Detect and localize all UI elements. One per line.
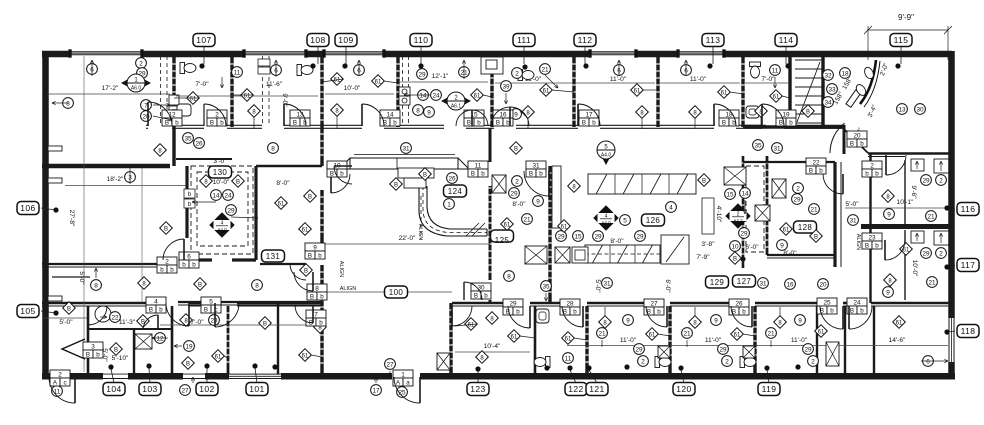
svg-text:B: B [471, 170, 475, 177]
keynote circle 9 [424, 107, 435, 118]
leader dot [342, 63, 347, 68]
svg-text:3: 3 [91, 343, 95, 350]
keynote circle 1 [444, 199, 455, 210]
keynote circle 9 [777, 240, 788, 251]
leader dot [252, 363, 257, 368]
svg-text:b: b [318, 252, 322, 259]
wall right rooms x905 [904, 160, 906, 224]
svg-text:4: 4 [154, 298, 158, 305]
keynote circle 29 [226, 205, 237, 216]
room tag 103 [139, 383, 161, 396]
cabinets right room 116 [911, 159, 950, 173]
keynote circle 29 [921, 248, 932, 259]
leader arrow [358, 60, 360, 76]
room tag 127 [733, 275, 756, 287]
svg-text:B: B [733, 256, 737, 262]
svg-text:31: 31 [759, 280, 767, 287]
svg-text:b: b [340, 170, 344, 177]
svg-text:120: 120 [676, 384, 691, 394]
keynote circle 21 [809, 204, 820, 215]
leader dot [764, 365, 769, 370]
keynote circle 8 [413, 105, 424, 116]
svg-text:29: 29 [509, 300, 517, 307]
svg-text:B: B [164, 226, 168, 232]
svg-text:2: 2 [641, 358, 645, 365]
door tag 18 [719, 110, 739, 126]
wall ledge stubs left [48, 146, 62, 151]
room 130 right wall [254, 166, 257, 260]
clinic wall x322 full height [320, 127, 323, 166]
door tag 5 [201, 297, 221, 313]
svg-text:6: 6 [926, 358, 930, 365]
svg-text:61: 61 [302, 227, 309, 233]
svg-text:29: 29 [719, 346, 727, 353]
svg-text:124: 124 [448, 187, 463, 196]
svg-text:21: 21 [927, 213, 935, 220]
door swing [762, 104, 784, 126]
door tag 16 [493, 110, 513, 126]
wall-type diamond 8 [599, 316, 612, 329]
wall-type diamond 61 [562, 332, 575, 345]
keynote circle 21 [522, 214, 533, 225]
svg-text:A4.0: A4.0 [601, 153, 612, 159]
kitchen south wall [767, 254, 835, 256]
keynote circle 29 [634, 344, 645, 355]
room tag 109 [335, 34, 357, 47]
door tag 28 [560, 299, 580, 315]
svg-text:117: 117 [961, 260, 976, 270]
svg-text:35: 35 [184, 135, 192, 142]
keynote circle 11 [232, 67, 243, 78]
leader dot [204, 363, 209, 368]
laundry wall x451 [449, 303, 452, 374]
door tag 29 [503, 299, 523, 315]
tag leader [41, 311, 56, 313]
keynote circle 29 [792, 194, 803, 205]
svg-text:A6.1: A6.1 [451, 104, 462, 110]
keynote circle 26 [194, 138, 205, 149]
svg-text:B: B [394, 182, 398, 188]
svg-text:b: b [175, 119, 179, 126]
svg-text:B: B [114, 347, 118, 353]
svg-text:B: B [814, 234, 818, 240]
svg-text:10'-1": 10'-1" [897, 199, 914, 206]
svg-text:2: 2 [515, 70, 519, 77]
door swing [362, 104, 384, 126]
svg-text:1: 1 [401, 371, 405, 378]
keynote circle 16 [785, 279, 796, 290]
svg-text:16: 16 [786, 281, 794, 288]
keynote circle 2 [722, 356, 733, 367]
tag leader [111, 369, 114, 383]
svg-text:B: B [529, 170, 533, 177]
door tag 3 [83, 342, 103, 358]
keynote circle 9 [795, 315, 806, 326]
leader arrow [153, 116, 172, 120]
door tag 23 [862, 233, 882, 249]
wall-type diamond B [63, 302, 76, 315]
room tag 117 [957, 259, 979, 272]
leader dot [586, 365, 591, 370]
door tag 6 [179, 252, 199, 268]
svg-text:5'-10": 5'-10" [112, 355, 129, 362]
leader dot [199, 63, 204, 68]
keynote circle 29 [593, 231, 604, 242]
keynote circle 29 [137, 68, 148, 79]
svg-text:5: 5 [209, 298, 213, 305]
svg-text:6: 6 [187, 253, 191, 260]
svg-text:9: 9 [798, 317, 802, 324]
door swing [295, 305, 313, 323]
svg-text:102: 102 [199, 384, 214, 394]
wall-type diamond 8 [882, 190, 895, 203]
door swing [578, 104, 600, 126]
svg-text:b: b [539, 170, 543, 177]
leader dot [624, 364, 629, 369]
leader arrow [275, 60, 277, 77]
svg-text:14: 14 [386, 111, 394, 118]
svg-text:104: 104 [106, 384, 121, 394]
svg-text:B: B [86, 351, 90, 358]
room tag 121 [586, 383, 608, 396]
dim lines bottom band [567, 345, 948, 347]
svg-text:14: 14 [419, 92, 427, 99]
svg-text:112: 112 [578, 35, 593, 45]
wall-type diamond 61 [471, 89, 484, 102]
svg-text:22'-0": 22'-0" [399, 235, 416, 242]
equipment (x-box) [772, 179, 786, 198]
svg-text:8'-0": 8'-0" [512, 201, 526, 208]
door tag 9 [305, 243, 325, 259]
door swing [148, 102, 172, 126]
wall y153 right [868, 152, 951, 154]
keynote circle 31 [401, 143, 412, 154]
top office partition walls [172, 57, 175, 127]
svg-text:29: 29 [740, 230, 748, 237]
toilet fixture [750, 62, 761, 78]
svg-text:2: 2 [139, 60, 143, 67]
svg-text:12'-1": 12'-1" [432, 73, 449, 80]
svg-text:b: b [592, 119, 596, 126]
keynote circle 9 [623, 315, 634, 326]
wall-type diamond 61 [900, 243, 913, 256]
svg-text:1: 1 [447, 201, 451, 208]
keynote circle 6 [614, 65, 625, 76]
leader arrow [685, 60, 687, 76]
wall-type diamond 61 [780, 223, 793, 236]
svg-text:B: B [850, 140, 854, 147]
toilet fixture [518, 70, 534, 81]
clinic core wall x550 [548, 166, 551, 303]
svg-text:10'-0": 10'-0" [213, 179, 230, 186]
wall-type diamond B [232, 175, 245, 188]
wall-type diamond B [110, 343, 123, 356]
svg-text:26: 26 [195, 140, 203, 147]
door swing [464, 282, 482, 300]
svg-text:A4.2: A4.2 [733, 218, 743, 223]
wall-type diamond 8 [689, 316, 702, 329]
keynote circle 39 [501, 81, 512, 92]
leader arrow [153, 104, 170, 106]
svg-text:B: B [514, 146, 518, 152]
leader arrow [463, 60, 465, 79]
leader arrow [52, 102, 68, 104]
svg-text:8'-0": 8'-0" [783, 250, 797, 257]
door swing [204, 104, 226, 126]
svg-text:b: b [393, 119, 397, 126]
door swing [331, 174, 350, 193]
door tag 10 [327, 161, 347, 177]
equipment (x-box) [135, 334, 152, 349]
exterior top wall [42, 51, 70, 58]
keynote circle 9 [511, 109, 522, 120]
keynote circle 20 [141, 111, 152, 122]
svg-text:B: B [582, 119, 586, 126]
door tag 2 [862, 161, 882, 177]
svg-text:8: 8 [271, 145, 275, 152]
room127 dashed outline [746, 166, 764, 252]
wall-type diamond 61 [372, 75, 385, 88]
wall-type diamond B [300, 264, 313, 277]
svg-text:B: B [308, 194, 312, 200]
dim line 18-2 [65, 185, 186, 187]
leader arrow [618, 60, 620, 76]
room tag 131 [262, 250, 285, 262]
room tag 114 [775, 34, 797, 47]
svg-text:b: b [860, 140, 864, 147]
keynote circle 3 [125, 172, 136, 183]
svg-text:b: b [875, 170, 879, 177]
stair side walls [788, 57, 791, 127]
leader dot [108, 364, 113, 369]
tag leader [149, 368, 150, 383]
door tag 13 [290, 110, 310, 126]
sink [95, 306, 111, 322]
svg-text:A4.0: A4.0 [217, 227, 227, 232]
cabinet room 111 [481, 57, 503, 74]
door swing [294, 272, 313, 291]
svg-text:15: 15 [574, 233, 582, 240]
leader dot [522, 64, 527, 69]
door swing [830, 123, 845, 153]
keynote circle 29 [921, 175, 932, 186]
svg-text:5'-0": 5'-0" [845, 201, 859, 208]
leader arrow [192, 201, 216, 203]
room130 dashed equipment outline [191, 166, 253, 254]
wall x172 [171, 306, 174, 374]
svg-text:29: 29 [227, 207, 235, 214]
left low partition [172, 127, 175, 166]
keynote circle 21 [682, 328, 693, 339]
room tag 100 [385, 286, 408, 298]
keynote circle 21 [766, 328, 777, 339]
wall-type diamond B [182, 357, 195, 370]
wall-type diamond 8 [774, 316, 787, 329]
svg-text:29: 29 [635, 346, 643, 353]
svg-text:61: 61 [818, 329, 825, 335]
door tag 26 [729, 299, 749, 315]
keynote circle 2 [136, 58, 147, 69]
wall-type diamond 8 [476, 351, 489, 364]
svg-text:B: B [186, 361, 190, 367]
keynote circle 2 [638, 356, 649, 367]
door tag 8 [307, 284, 327, 300]
door threshold [183, 373, 205, 375]
svg-text:118: 118 [961, 326, 976, 336]
low wall room 105 top [52, 276, 90, 278]
room tag 130 [209, 166, 232, 178]
wall right x870 [869, 153, 871, 303]
keynote circle 9 [533, 196, 544, 207]
svg-text:9'-6": 9'-6" [910, 185, 917, 199]
keynote circle 2 [793, 183, 804, 194]
svg-text:2: 2 [725, 358, 729, 365]
keynote circle 30 [915, 104, 926, 115]
wall-type diamond B [729, 252, 742, 265]
svg-text:11'-0": 11'-0" [705, 337, 722, 344]
keynote circle 8 [91, 280, 102, 291]
svg-text:122: 122 [568, 384, 583, 394]
tag leader [785, 46, 787, 64]
svg-text:9: 9 [427, 109, 431, 116]
svg-text:24: 24 [432, 92, 440, 99]
svg-text:61: 61 [302, 353, 309, 359]
svg-text:b: b [481, 170, 485, 177]
svg-text:11: 11 [234, 69, 241, 76]
storefront window [244, 51, 306, 53]
door swing [290, 264, 306, 280]
exterior right wall [948, 51, 955, 318]
door swing [143, 315, 158, 330]
keynote circle 19 [184, 341, 195, 352]
keynote circle 25 [397, 387, 408, 398]
leader arrow [404, 94, 430, 96]
casework counter [585, 245, 660, 263]
svg-text:22: 22 [111, 314, 119, 321]
storefront window [70, 51, 142, 53]
wall-type diamond B [137, 315, 150, 328]
svg-text:B: B [236, 179, 240, 185]
wall-type diamond B [810, 230, 823, 243]
svg-text:b: b [319, 319, 323, 326]
svg-text:b: b [96, 351, 100, 358]
leader dot [475, 366, 480, 371]
svg-text:2: 2 [165, 258, 169, 265]
svg-text:61: 61 [504, 222, 511, 228]
svg-text:B: B [149, 306, 153, 313]
wall-type diamond 61 [815, 325, 828, 338]
room tag 125 [491, 230, 514, 245]
door swing [49, 377, 75, 403]
svg-text:61: 61 [773, 94, 780, 100]
leader arrow [95, 268, 97, 278]
door tag 2 [157, 257, 177, 273]
storefront window [324, 51, 384, 53]
svg-text:B: B [67, 306, 71, 312]
leader dot [544, 365, 549, 370]
svg-text:B: B [496, 119, 500, 126]
tag leader [477, 371, 479, 383]
svg-text:b: b [320, 293, 324, 300]
svg-text:35: 35 [754, 142, 762, 149]
ALIGN box [702, 198, 714, 234]
keynote circle 21 [926, 211, 937, 222]
svg-text:19: 19 [782, 111, 790, 118]
keynote circle 7 [141, 100, 152, 111]
svg-text:B: B [779, 119, 783, 126]
keynote circle 31 [602, 278, 613, 289]
svg-text:b: b [657, 308, 661, 315]
svg-text:B: B [809, 167, 813, 174]
door swing [394, 377, 420, 403]
wall-type diamond 8 [755, 105, 768, 118]
door swing [885, 240, 905, 260]
svg-text:A6.0: A6.0 [131, 86, 142, 92]
tall cabinet against wall x550 [552, 166, 561, 228]
svg-text:ALIGN: ALIGN [855, 234, 861, 251]
svg-text:ALIGN: ALIGN [417, 224, 423, 241]
leader dot [944, 264, 949, 269]
svg-text:21: 21 [928, 279, 936, 286]
room 127 top wall [743, 161, 835, 163]
door swing [562, 306, 583, 327]
svg-text:34: 34 [824, 99, 832, 106]
leader dot [678, 365, 683, 370]
svg-text:b: b [865, 170, 869, 177]
wall-type diamond B [510, 142, 523, 155]
room tag 119 [758, 383, 780, 396]
svg-text:9: 9 [536, 198, 540, 205]
window mullion marks [69, 50, 72, 58]
room tag 120 [673, 383, 695, 396]
section marker 1/A6.0 [121, 74, 151, 92]
storefront window [590, 51, 636, 53]
leader dot [785, 63, 790, 68]
svg-text:18'-2": 18'-2" [107, 176, 124, 183]
svg-text:22: 22 [812, 159, 820, 166]
svg-text:125: 125 [495, 236, 510, 245]
svg-text:5'-0": 5'-0" [59, 319, 73, 326]
keynote circle 8 [268, 143, 279, 154]
keynote circle 21 [459, 67, 470, 78]
door tag 19 [776, 110, 796, 126]
keynote circle 8 [252, 280, 263, 291]
wall-type diamond 8 [522, 106, 535, 119]
corridor wall left of room 106 [42, 263, 160, 265]
leader arrow [91, 60, 93, 76]
wall-type diamond 8 [331, 104, 344, 117]
tag leader [317, 46, 319, 64]
keynote circle 21 [597, 328, 608, 339]
svg-text:25: 25 [823, 299, 831, 306]
tag leader [206, 368, 208, 383]
wall-type diamond B [194, 278, 207, 291]
double sink cabinet room 110 [399, 87, 410, 96]
svg-text:61: 61 [734, 332, 741, 338]
svg-text:B: B [865, 242, 869, 249]
wall-type diamond 61 [299, 349, 312, 362]
door swing [849, 306, 872, 329]
leader arrow [192, 377, 194, 383]
room tag 122 [565, 383, 587, 396]
svg-text:27: 27 [650, 300, 658, 307]
wall x88 [87, 306, 90, 374]
dim lines top band [47, 93, 170, 95]
tag leader [947, 331, 955, 332]
svg-text:20: 20 [853, 132, 861, 139]
svg-text:10'-4": 10'-4" [484, 343, 501, 350]
svg-text:b: b [573, 308, 577, 315]
